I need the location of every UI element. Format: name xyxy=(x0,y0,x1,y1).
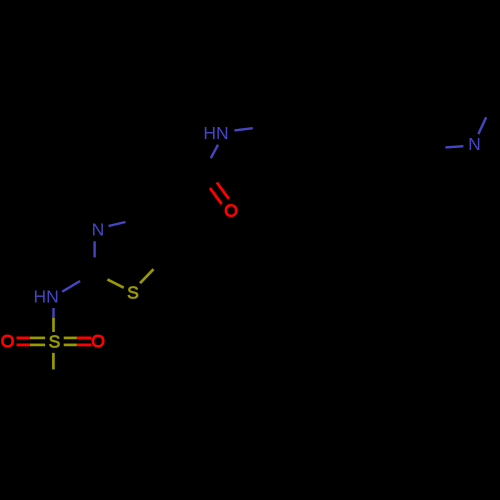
svg-text:HN: HN xyxy=(34,287,59,307)
svg-text:O: O xyxy=(224,201,238,221)
svg-text:HN: HN xyxy=(203,123,228,143)
svg-text:O: O xyxy=(91,331,105,351)
svg-text:S: S xyxy=(127,283,139,303)
svg-text:O: O xyxy=(1,331,15,351)
svg-text:S: S xyxy=(49,332,61,352)
svg-text:N: N xyxy=(92,220,105,240)
svg-text:N: N xyxy=(468,134,481,154)
